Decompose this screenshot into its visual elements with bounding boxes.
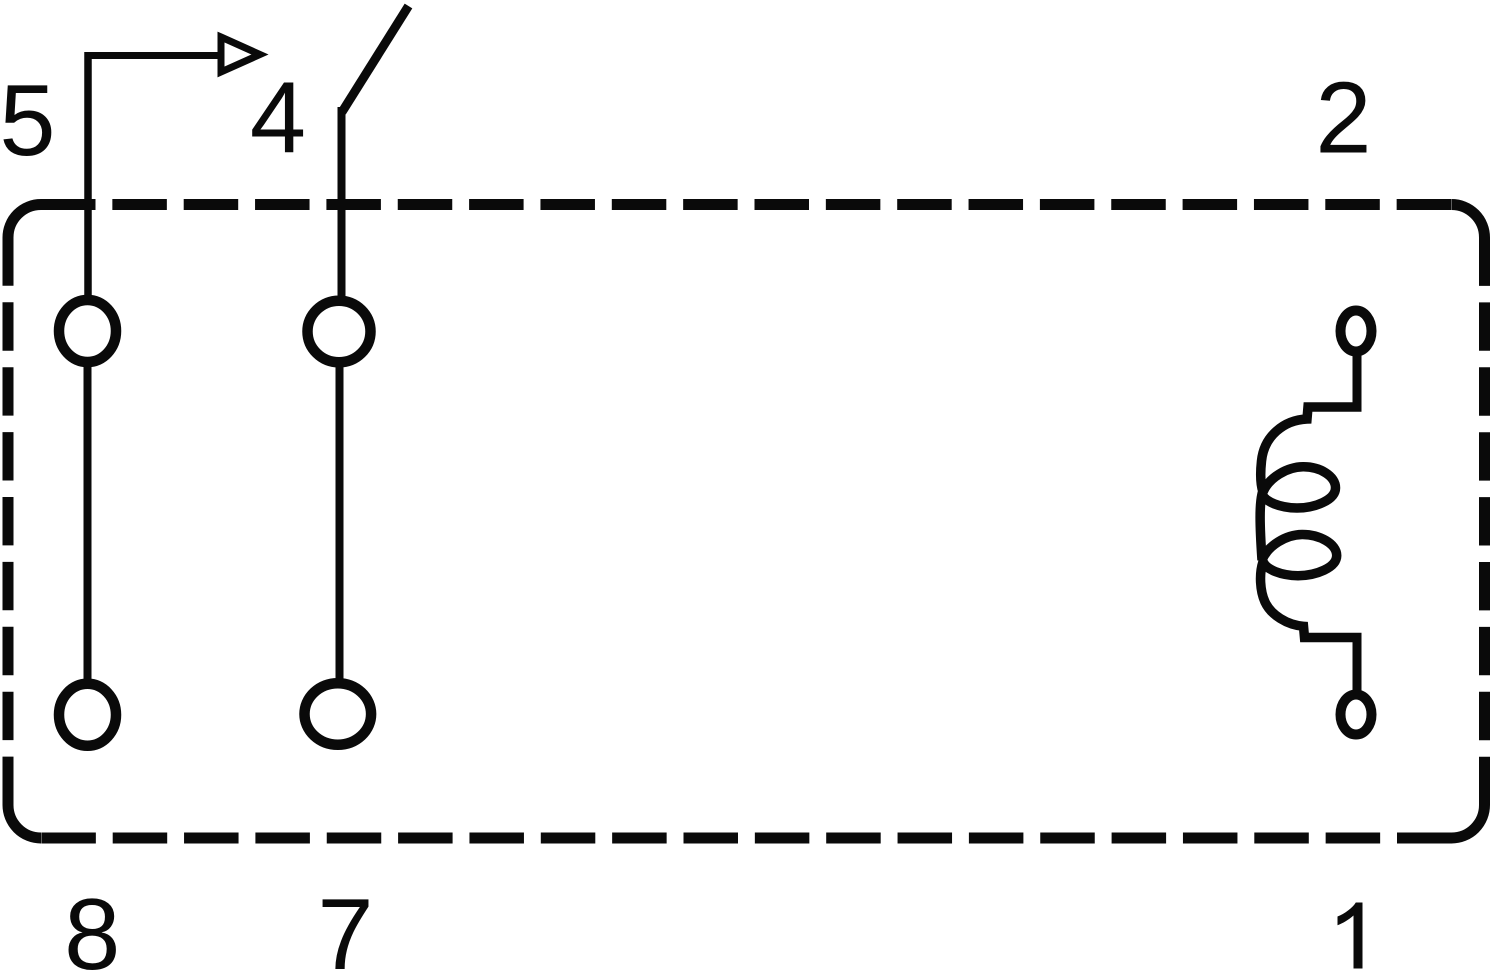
wire coil bottom lead	[1353, 638, 1362, 693]
switch arm pin 4 (movable contact, angled)	[342, 6, 409, 112]
wire between pin5 and pin8 contacts	[84, 362, 92, 684]
arrowhead (open triangle)	[221, 37, 260, 72]
contact circle pin 7 (bottom of pole 4-7)	[305, 683, 372, 745]
svg-text:2: 2	[1315, 63, 1371, 175]
wire between pin4 and pin7 contacts	[336, 362, 344, 684]
coil terminal circle pin 1 (bottom)	[1341, 695, 1372, 735]
svg-text:7: 7	[317, 879, 373, 976]
contact circle pin 5 (top of pole 5-8)	[59, 300, 116, 362]
wire arrow shaft (common actuation arrow)	[85, 52, 219, 59]
coil L1 (relay coil with two loops)	[1260, 407, 1361, 638]
contact circle pin 8 (bottom of pole 5-8)	[59, 684, 116, 746]
wire coil top lead	[1353, 351, 1362, 403]
wire pin4 vertical lead	[338, 107, 346, 297]
wire pin5 vertical lead	[84, 52, 92, 296]
coil terminal circle pin 2 (top)	[1341, 311, 1372, 352]
label pin 1 (custom glyph without foot serif)	[1338, 903, 1363, 969]
svg-text:4: 4	[250, 63, 306, 175]
svg-text:8: 8	[64, 879, 120, 976]
contact circle pin 4 (top of pole 4-7)	[308, 301, 371, 363]
relay outline dashed box	[8, 205, 1485, 839]
svg-text:5: 5	[0, 65, 56, 177]
